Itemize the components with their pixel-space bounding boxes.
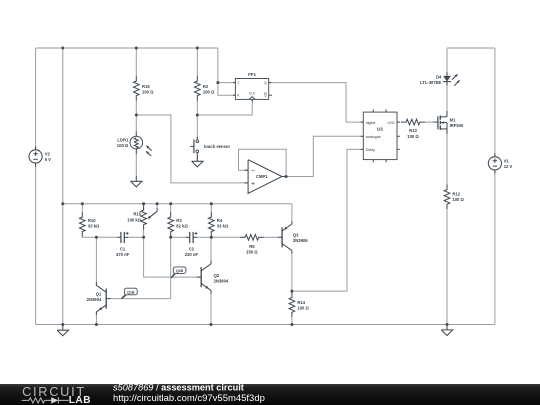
svg-text:http://circuitlab.com/c97v55m4: http://circuitlab.com/c97v55m45f3dp <box>113 393 265 404</box>
svg-text:R3: R3 <box>176 218 182 223</box>
svg-text:100 Ω: 100 Ω <box>203 90 215 95</box>
svg-text:Delay: Delay <box>366 148 376 152</box>
svg-text:2N3904: 2N3904 <box>87 297 102 302</box>
svg-text:R16: R16 <box>142 84 150 89</box>
svg-text:100 Ω: 100 Ω <box>452 197 464 202</box>
svg-text:100 Ω: 100 Ω <box>407 134 419 139</box>
svg-text:Q: Q <box>264 81 267 85</box>
svg-text:2N3904: 2N3904 <box>214 278 229 283</box>
svg-text:LAB: LAB <box>69 395 91 405</box>
svg-text:digital: digital <box>366 121 376 125</box>
svg-text:R12: R12 <box>452 191 460 196</box>
svg-text:s5087869 / assessment circuit: s5087869 / assessment circuit <box>113 384 244 393</box>
svg-text:M1: M1 <box>450 118 456 123</box>
svg-text:100 kΩ: 100 kΩ <box>127 217 141 222</box>
svg-text:FF1: FF1 <box>248 72 256 77</box>
svg-text:LTL-307EE: LTL-307EE <box>420 80 442 85</box>
svg-text:touch sensor: touch sensor <box>204 144 231 149</box>
svg-text:C1: C1 <box>120 247 126 252</box>
svg-text:33 kΩ: 33 kΩ <box>88 224 100 229</box>
svg-text:Q2B: Q2B <box>176 269 184 273</box>
svg-text:R15: R15 <box>133 212 141 217</box>
svg-text:Q1B: Q1B <box>127 290 135 294</box>
svg-text:100 Ω: 100 Ω <box>117 143 129 148</box>
svg-text:R5: R5 <box>249 244 255 249</box>
svg-text:33 kΩ: 33 kΩ <box>217 224 229 229</box>
svg-text:R14: R14 <box>297 300 305 305</box>
svg-text:Q3: Q3 <box>293 232 299 237</box>
svg-text:470 nF: 470 nF <box>116 252 130 257</box>
svg-text:IRF530: IRF530 <box>450 123 464 128</box>
svg-text:150 Ω: 150 Ω <box>246 249 258 254</box>
svg-text:C2: C2 <box>189 247 195 252</box>
svg-text:U1: U1 <box>377 127 384 133</box>
svg-text:−: − <box>251 168 255 175</box>
svg-text:R13: R13 <box>409 128 417 133</box>
svg-text:D4: D4 <box>436 75 442 80</box>
svg-text:CMP1: CMP1 <box>256 174 268 179</box>
svg-text:CLK: CLK <box>249 92 256 96</box>
svg-text:5 V: 5 V <box>45 157 51 162</box>
svg-text:R10: R10 <box>88 218 96 223</box>
svg-text:V1: V1 <box>504 158 510 163</box>
svg-text:LDR1: LDR1 <box>117 137 129 142</box>
svg-text:analogue: analogue <box>366 135 381 139</box>
svg-text:LED: LED <box>388 121 396 125</box>
svg-text:100 Ω: 100 Ω <box>297 306 309 311</box>
svg-text:12 V: 12 V <box>504 164 513 169</box>
svg-text:Q: Q <box>264 94 267 98</box>
svg-text:V2: V2 <box>45 151 51 156</box>
svg-text:R4: R4 <box>217 218 223 223</box>
svg-text:220 nF: 220 nF <box>185 252 199 257</box>
svg-text:+: + <box>251 181 255 188</box>
svg-text:Q1: Q1 <box>96 291 102 296</box>
svg-text:2N3906: 2N3906 <box>293 238 308 243</box>
svg-text:R2: R2 <box>203 84 209 89</box>
svg-text:Q2: Q2 <box>214 273 220 278</box>
svg-text:100 Ω: 100 Ω <box>142 90 154 95</box>
svg-text:82 kΩ: 82 kΩ <box>176 224 188 229</box>
